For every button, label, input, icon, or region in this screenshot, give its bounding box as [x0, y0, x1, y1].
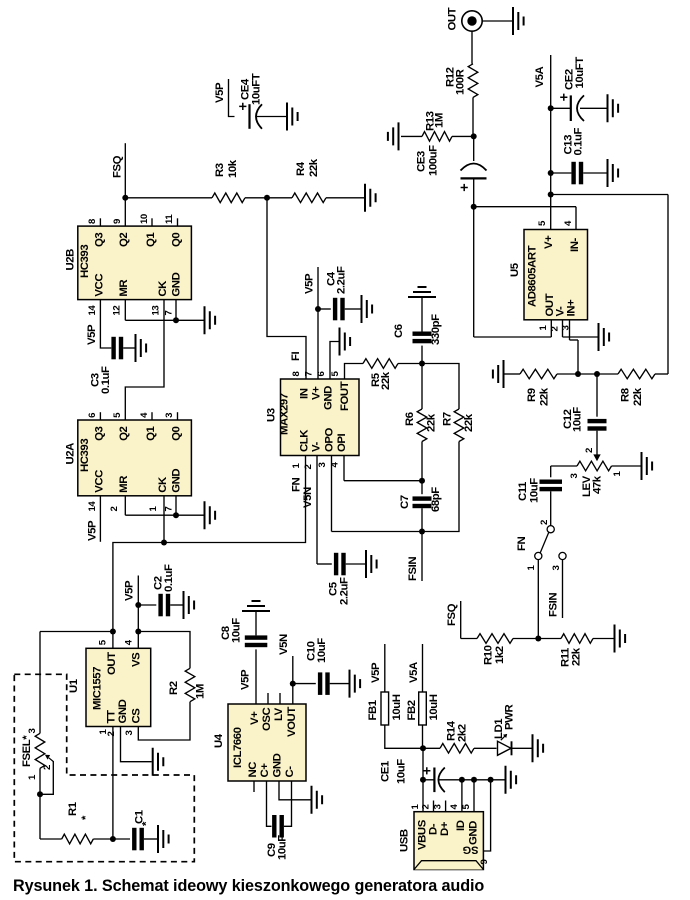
wire: [421, 508, 423, 531]
svg-text:SG: SG: [463, 844, 479, 856]
svg-text:14: 14: [87, 305, 98, 316]
node FSEL wiper/pin1: [37, 791, 43, 797]
potentiometer FSEL: [21, 729, 53, 795]
resistor R8: [597, 369, 668, 406]
wire V5N stub: [292, 656, 294, 684]
wire switch pin3 FSIN: [562, 560, 564, 618]
node R5/C6/R6/R7: [419, 361, 425, 367]
wire: [40, 838, 62, 840]
svg-text:2: 2: [303, 465, 314, 470]
LV stub: [279, 693, 281, 704]
potentiometer LEV body: [577, 461, 612, 471]
ground at U3 GND: [340, 328, 351, 356]
svg-text:FI: FI: [290, 351, 302, 361]
svg-text:OPO: OPO: [324, 427, 336, 452]
wire node to IN- (crosses V5A): [474, 206, 576, 208]
svg-text:ICL7660: ICL7660: [232, 727, 244, 768]
svg-text:3: 3: [27, 729, 38, 734]
ground at C4: [362, 295, 373, 323]
wire: [113, 838, 130, 840]
node V5P/C2: [135, 602, 141, 608]
svg-text:C-: C-: [284, 766, 296, 778]
wire CK to bus: [163, 496, 165, 543]
resistor R14 body: [440, 744, 474, 754]
svg-text:R3: R3: [214, 163, 226, 177]
potentiometer FSEL body: [35, 733, 45, 768]
wire IN+ stub: [569, 320, 571, 340]
capacitor C2 plates: [158, 594, 162, 617]
wire: [596, 374, 598, 417]
ground at OUT jack: [513, 7, 524, 35]
wire R2 to CS: [138, 702, 190, 740]
wire C- to C9: [284, 781, 292, 826]
svg-text:NC: NC: [247, 762, 259, 778]
node OPI/R6/C7: [419, 478, 425, 484]
wire: [423, 747, 440, 749]
wire IN- pin stub: [575, 207, 577, 230]
wire: [557, 373, 578, 375]
capacitor C6: [393, 297, 442, 364]
resistor R1 body: [62, 834, 94, 844]
svg-text:R8: R8: [620, 388, 632, 402]
U2A pin 4 stub: [151, 412, 153, 420]
wire: [330, 683, 349, 685]
ground at C1: [158, 825, 169, 853]
svg-text:10uF: 10uF: [231, 618, 243, 643]
wire GND stub: [175, 496, 177, 515]
resistor R2 body: [185, 668, 195, 701]
wire FB1 down: [385, 725, 423, 748]
wire: [346, 563, 365, 565]
svg-text:USB: USB: [399, 829, 411, 852]
resistor R9: [504, 369, 578, 406]
wire LEV to C11: [551, 465, 577, 467]
svg-text:3: 3: [124, 731, 135, 736]
wire to U5 OUT: [474, 336, 552, 338]
svg-text:MIC1557: MIC1557: [92, 667, 104, 710]
wire to ground: [176, 514, 204, 516]
node bias IN+: [575, 371, 581, 377]
node U1 OUT: [110, 629, 116, 635]
wire V- to ground: [563, 336, 598, 338]
capacitor C10 plates: [318, 672, 322, 695]
svg-text:10uH: 10uH: [428, 694, 440, 720]
svg-text:FN: FN: [516, 536, 528, 551]
wire: [123, 347, 134, 349]
wire V5A rail: [550, 55, 552, 230]
wire: [513, 638, 538, 640]
U2B pin 8 stub: [99, 218, 101, 226]
wire U4 GND: [279, 781, 311, 800]
wire CE4 to ground: [257, 116, 286, 118]
svg-text:FSQ: FSQ: [112, 155, 124, 178]
wire V- to C5: [316, 456, 318, 565]
capacitor C1: [113, 809, 157, 850]
wire V5A stub: [422, 644, 424, 692]
resistor R4: [267, 158, 364, 202]
connector USB box: [414, 812, 483, 870]
wire C+ to C9: [267, 781, 272, 826]
svg-text:VCC: VCC: [93, 274, 105, 297]
node GND: [471, 777, 477, 783]
OSC stub: [267, 693, 269, 704]
capacitor C9: [266, 781, 292, 860]
node SG: [488, 777, 494, 783]
ground at R4: [365, 184, 376, 212]
svg-text:2: 2: [539, 520, 550, 525]
svg-text:22k: 22k: [380, 371, 392, 390]
resistor R5 body: [363, 359, 398, 369]
svg-text:Q2: Q2: [118, 426, 130, 440]
svg-text:V5P: V5P: [304, 273, 316, 294]
capacitor C3 plates: [111, 337, 115, 360]
capacitor C4 plates: [333, 298, 337, 321]
capacitor C8 plates: [245, 635, 267, 639]
svg-text:13: 13: [151, 306, 162, 316]
resistor R10 body: [477, 634, 513, 644]
node CK on bus: [161, 540, 167, 546]
wire C11 to switch: [550, 491, 552, 525]
svg-text:10uH: 10uH: [391, 694, 403, 720]
capacitor C13: [551, 128, 607, 185]
svg-text:7: 7: [163, 311, 174, 316]
wire V5P stub: [137, 576, 139, 606]
wire IN+ to bias node: [577, 340, 579, 374]
resistor R12 body: [468, 64, 478, 98]
svg-text:10: 10: [139, 214, 150, 224]
wire Q2 to FSQ node: [124, 198, 126, 226]
wire: [345, 308, 361, 310]
svg-text:FB1: FB1: [367, 699, 379, 720]
svg-text:V5A: V5A: [408, 662, 420, 683]
ground at U2B: [205, 306, 216, 334]
wire: [421, 346, 423, 364]
svg-text:FOUT: FOUT: [339, 381, 351, 411]
svg-text:2: 2: [421, 805, 432, 810]
wire: [474, 747, 497, 749]
svg-text:3: 3: [569, 474, 580, 479]
ground at U1: [153, 748, 164, 776]
capacitor C2: [138, 564, 182, 616]
wire: [596, 431, 598, 456]
node VOUT: [290, 681, 296, 687]
wire MR stub: [124, 496, 126, 515]
svg-text:Rysunek 1. Schemat ideowy kies: Rysunek 1. Schemat ideowy kieszonkowego …: [13, 877, 484, 895]
svg-text:GND: GND: [323, 386, 335, 410]
svg-text:V5P: V5P: [87, 520, 99, 541]
ground at C3: [136, 334, 147, 362]
svg-text:2.2uF: 2.2uF: [339, 577, 351, 605]
svg-text:R7: R7: [442, 412, 454, 426]
svg-text:2: 2: [584, 448, 595, 453]
resistor R6: [404, 364, 438, 481]
wire: [504, 373, 520, 375]
capacitor C6 plates: [413, 332, 432, 336]
wire: [550, 466, 552, 477]
svg-text:22k: 22k: [463, 413, 475, 432]
svg-text:0.1uF: 0.1uF: [573, 128, 585, 156]
svg-text:U3: U3: [266, 408, 278, 422]
svg-text:9: 9: [112, 219, 123, 224]
node R12/R13/CE3: [471, 133, 477, 139]
svg-text:FB2: FB2: [406, 700, 418, 720]
capacitor C7 plates: [413, 496, 432, 500]
svg-text:CLK: CLK: [299, 429, 311, 452]
wire node to FSEL: [40, 631, 113, 633]
svg-text:Q1: Q1: [145, 425, 157, 440]
wire down to R8: [667, 195, 669, 375]
svg-text:LV: LV: [273, 707, 285, 721]
wire GND: [473, 780, 475, 812]
wire TT down: [112, 727, 114, 840]
svg-text:D-: D-: [427, 823, 439, 835]
LED LD1: [493, 705, 516, 756]
D+ stub: [445, 801, 447, 812]
svg-text:V5P: V5P: [124, 580, 136, 601]
svg-text:MR: MR: [118, 280, 130, 297]
wire: [578, 373, 597, 375]
wire R7 bottom: [422, 442, 459, 532]
svg-text:22k: 22k: [571, 647, 583, 666]
svg-text:FN: FN: [291, 477, 303, 492]
svg-text:C7: C7: [399, 495, 411, 509]
ferrite bead FB1: [367, 692, 403, 725]
converter U4 ICL7660 box: [228, 704, 306, 781]
wire: [93, 838, 113, 840]
node V5P/C4: [315, 306, 321, 312]
svg-text:CE3: CE3: [416, 151, 428, 172]
capacitor C11: [517, 478, 562, 503]
wire VCC stub: [99, 496, 101, 542]
svg-text:OPI: OPI: [336, 433, 348, 452]
wire: [583, 172, 606, 174]
resistor R12: [445, 64, 478, 98]
resistor R1: [40, 801, 113, 844]
svg-text:D+: D+: [439, 821, 451, 836]
capacitor C5 plates: [334, 553, 338, 576]
wire: [138, 604, 156, 606]
svg-text:U2A: U2A: [65, 443, 77, 465]
wire to OPO: [332, 531, 423, 533]
svg-text:AD8605ART: AD8605ART: [527, 245, 539, 307]
capacitor CE3: [416, 145, 487, 191]
ground at C13: [608, 159, 619, 187]
svg-text:6: 6: [87, 413, 98, 418]
resistor R9 body: [520, 369, 557, 379]
wire CE3 to node: [473, 178, 475, 206]
svg-text:22k: 22k: [632, 387, 644, 406]
svg-text:FSIN: FSIN: [407, 557, 419, 581]
node ID: [459, 777, 465, 783]
svg-text:V5A: V5A: [534, 66, 546, 87]
wire MR to GND node: [125, 319, 176, 321]
ground at CE1: [506, 766, 517, 794]
wire: [452, 135, 471, 137]
wire: [170, 604, 182, 606]
capacitor CE2: [551, 57, 586, 121]
ground at U2A: [205, 501, 216, 529]
ground at C5: [366, 550, 377, 578]
svg-text:CE1: CE1: [380, 760, 392, 782]
wire V5P stub: [384, 644, 386, 692]
svg-text:1M: 1M: [195, 684, 207, 699]
wire OPO stub: [331, 456, 333, 532]
wire OUT stub: [112, 632, 114, 649]
wire FSIN stub: [421, 532, 423, 582]
svg-text:3: 3: [433, 805, 444, 810]
svg-text:V5P: V5P: [240, 669, 252, 690]
wire CE1 to ground: [439, 779, 505, 781]
svg-text:C11: C11: [517, 481, 529, 501]
resistor R11 body: [561, 634, 593, 644]
wire: [597, 373, 618, 375]
wire R2 top: [138, 632, 190, 669]
wire V5P stub: [229, 79, 235, 117]
svg-text:22k: 22k: [308, 158, 320, 177]
svg-text:V-: V-: [311, 441, 323, 452]
wire jack to ground: [482, 20, 513, 22]
wire: [538, 638, 561, 640]
ground at U5 V-: [599, 323, 610, 351]
svg-text:V+: V+: [543, 235, 555, 249]
resistor R10: [461, 634, 539, 665]
wire down: [39, 794, 41, 839]
svg-text:V5P: V5P: [370, 662, 382, 683]
svg-text:R1: R1: [67, 801, 79, 816]
ferrite bead FB2: [406, 692, 440, 725]
wire: [551, 172, 572, 174]
svg-text:HC393: HC393: [79, 439, 91, 472]
svg-text:U1: U1: [68, 678, 80, 693]
node U1 VS: [135, 629, 141, 635]
wire: [423, 779, 434, 781]
svg-text:VCC: VCC: [93, 470, 105, 493]
U2A pin 6 stub: [99, 412, 101, 420]
capacitor C5: [317, 553, 365, 605]
wire: [421, 297, 423, 332]
ground at C10: [350, 670, 361, 698]
wire: [570, 339, 579, 341]
capacitor CE4: [239, 73, 262, 129]
svg-text:R6: R6: [404, 412, 416, 426]
svg-text:22k: 22k: [426, 413, 438, 432]
counter U2A HC393 box: [78, 420, 192, 496]
wire FB2 down: [422, 725, 424, 748]
svg-text:100uF: 100uF: [428, 145, 440, 176]
wire U3 GND: [330, 342, 339, 380]
svg-text:VS: VS: [131, 652, 143, 667]
U2B pin 10 stub: [151, 218, 153, 226]
wire ID: [461, 780, 463, 812]
wire node to CE3: [473, 136, 475, 161]
wire U5 OUT pin stub: [550, 320, 552, 337]
svg-text:0.1uF: 0.1uF: [100, 366, 112, 394]
svg-text:U5: U5: [509, 262, 521, 277]
wire to ground: [176, 319, 204, 321]
svg-text:V5P: V5P: [86, 324, 98, 345]
svg-text:Q0: Q0: [170, 233, 182, 247]
svg-text:CK: CK: [157, 280, 169, 297]
svg-text:3: 3: [551, 566, 562, 571]
switch FN: [516, 520, 566, 571]
svg-text:V5P: V5P: [214, 82, 226, 103]
svg-text:2.2uF: 2.2uF: [336, 266, 348, 294]
wire VOUT stub: [292, 684, 294, 704]
wire OPI stub: [343, 456, 345, 481]
svg-text:Q2: Q2: [118, 233, 130, 247]
wire FSQ stub: [460, 601, 462, 639]
ground at LD1: [533, 734, 544, 762]
wire VS up: [137, 605, 139, 632]
svg-text:1k2: 1k2: [494, 646, 506, 664]
wire: [318, 308, 331, 310]
capacitor C3: [90, 337, 135, 394]
wire: [245, 197, 267, 199]
svg-text:10uF: 10uF: [396, 759, 408, 784]
filter U3 MAX297 box: [281, 379, 360, 456]
capacitor C12 plates: [588, 419, 607, 423]
svg-text:V5N: V5N: [302, 487, 314, 508]
wire VCC to V5P/C3: [100, 300, 111, 348]
capacitor C10: [293, 638, 349, 695]
svg-text:0.1uF: 0.1uF: [163, 564, 175, 592]
wire: [293, 683, 316, 685]
svg-text:100R: 100R: [455, 69, 467, 95]
svg-text:10k: 10k: [227, 159, 239, 178]
svg-text:HC393: HC393: [79, 245, 91, 278]
wire CE2 to ground: [580, 107, 607, 109]
ground at C6: [408, 287, 436, 297]
wire node down: [473, 207, 475, 337]
svg-text:10uFT: 10uFT: [574, 57, 586, 89]
svg-text:14: 14: [87, 501, 98, 512]
node V5A branch: [548, 192, 554, 198]
node FSQ: [122, 195, 128, 201]
wire: [421, 481, 423, 495]
op-amp U5 AD8605ART box: [524, 230, 588, 320]
wire: [421, 442, 423, 481]
node U2B GND: [173, 317, 179, 323]
wire GND stub: [175, 300, 177, 321]
node V5A/C13: [548, 170, 554, 176]
ground at U4: [312, 786, 323, 814]
svg-text:MR: MR: [118, 476, 130, 493]
ground at C2: [184, 591, 195, 619]
svg-text:CK: CK: [157, 476, 169, 493]
wire VBUS: [422, 748, 424, 811]
svg-text:22k: 22k: [539, 387, 551, 406]
U2B pin 11 stub: [177, 218, 179, 226]
svg-text:R9: R9: [526, 388, 538, 402]
wire: [421, 364, 423, 410]
svg-text:10uF: 10uF: [529, 478, 541, 503]
capacitor CE1: [380, 759, 445, 792]
svg-text:U4: U4: [213, 733, 225, 748]
wire LED to ground: [511, 747, 532, 749]
resistor R7 body: [454, 409, 464, 442]
svg-text:1M: 1M: [434, 113, 446, 128]
capacitor C13 plates: [571, 162, 575, 185]
capacitor C7: [399, 481, 442, 532]
svg-text:Q3: Q3: [93, 233, 105, 247]
wire: [655, 373, 668, 375]
svg-text:IN-: IN-: [569, 238, 581, 252]
svg-text:7: 7: [163, 507, 174, 512]
wire FI link: [267, 198, 306, 379]
svg-text:C1: C1: [134, 809, 146, 824]
node VBUS/FB/R14: [420, 745, 426, 751]
node bias C12: [594, 371, 600, 377]
